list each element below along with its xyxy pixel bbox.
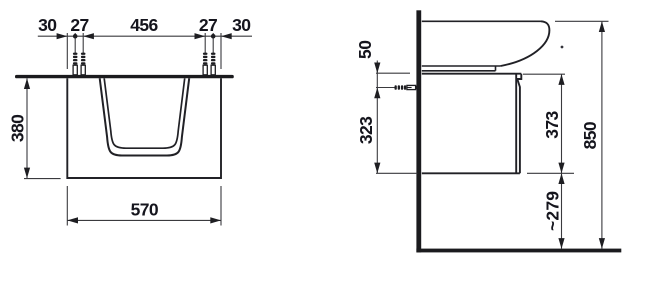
svg-text:27: 27	[199, 15, 217, 35]
570 right arrow	[210, 217, 221, 223]
svg-text:27: 27	[70, 15, 88, 35]
basin cutout outer profile	[100, 78, 190, 155]
cabinet side: carcass front line	[515, 74, 517, 174]
fixing bolt 3 (right inner)	[203, 53, 208, 75]
washbasin underside line	[422, 65, 501, 67]
arrow tip at cabinet right edge	[221, 33, 232, 39]
svg-text:373: 373	[542, 110, 562, 138]
washbasin base strip lower line	[422, 70, 496, 72]
cabinet edge extension lines (top dim)	[67, 33, 221, 69]
svg-text:323: 323	[356, 116, 376, 144]
extension line at cabinet bottom right	[527, 172, 574, 174]
cabinet side: top edge	[422, 73, 522, 75]
svg-text:380: 380	[7, 114, 27, 142]
570 extension lines	[66, 186, 68, 226]
fixing bolt stem extension lines	[75, 33, 213, 53]
50/323 dimension vertical line	[376, 61, 378, 174]
svg-text:~279: ~279	[542, 191, 562, 231]
svg-text:456: 456	[130, 15, 158, 35]
~279 top arrow (pointing up)	[558, 173, 564, 184]
850 bottom arrow (pointing down)	[599, 238, 605, 249]
washbasin base strip end cap	[495, 66, 497, 71]
svg-text:30: 30	[232, 15, 251, 35]
~279 bottom arrow (pointing down)	[558, 238, 564, 249]
floor	[416, 249, 621, 253]
basin cutout inner profile	[104, 78, 185, 148]
top dimension line	[38, 35, 252, 37]
fixing bolt 1 (left outer)	[73, 53, 78, 75]
wall	[416, 10, 421, 252]
washbasin outer profile curve	[501, 21, 550, 66]
380 bottom arrow	[24, 168, 30, 179]
cabinet side: door front profile with notch	[517, 74, 521, 174]
fixing bolt 2 (left inner)	[81, 53, 86, 75]
svg-text:30: 30	[38, 15, 57, 35]
570 left arrow	[67, 217, 78, 223]
cabinet front view body	[67, 78, 221, 178]
fixing bolt 4 (right outer)	[211, 53, 216, 75]
50 top arrow (pointing down)	[374, 63, 380, 74]
380 bottom extension line	[24, 178, 61, 180]
323 top arrow (pointing up)	[374, 88, 380, 99]
extension line at cabinet top right	[523, 73, 565, 75]
countertop	[15, 75, 234, 78]
washbasin rim top line	[422, 20, 541, 22]
dimension 570 line	[67, 219, 221, 221]
dimension 380 vertical line	[26, 78, 28, 178]
arrow tip at cabinet left edge	[57, 33, 68, 39]
arrow tip at bolt 2 (456 left)	[83, 33, 94, 39]
323 bottom arrow (pointing down)	[374, 163, 380, 174]
extension line at cabinet bottom (left of wall)	[376, 172, 417, 174]
373 top arrow (pointing up)	[558, 74, 564, 85]
850 top arrow (pointing up)	[599, 21, 605, 32]
svg-text:570: 570	[131, 199, 159, 219]
wall anchor bolt (side view)	[395, 85, 419, 90]
extension line at cabinet top level	[376, 72, 410, 74]
extension line at bolt level	[376, 87, 395, 89]
small reference dot	[561, 46, 564, 49]
dot terminator left (bolt 1)	[73, 34, 78, 39]
svg-text:850: 850	[580, 121, 600, 149]
svg-text:50: 50	[355, 40, 375, 59]
380 top arrow	[24, 78, 30, 89]
cabinet side: bottom edge	[422, 172, 520, 174]
373 bottom arrow (pointing down)	[558, 163, 564, 174]
dot terminator right (bolt 4)	[211, 34, 216, 39]
373 dimension vertical line	[561, 74, 563, 173]
extension line at basin rim level	[555, 20, 609, 22]
~279 dimension vertical line	[561, 173, 563, 249]
850 dimension vertical line	[601, 21, 603, 249]
arrow tip at bolt 3 (456 right)	[195, 33, 206, 39]
